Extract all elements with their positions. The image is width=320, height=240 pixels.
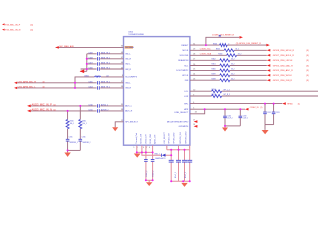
svg-text:46: 46 (121, 62, 123, 64)
svg-text:R311: R311 (82, 121, 86, 123)
svg-text:AUX_R: AUX_R (125, 110, 132, 113)
svg-text:MIKE_TR_2: MIKE_TR_2 (101, 63, 110, 65)
wire IN row C306 left (81, 68, 124, 70)
ground HPR caps (222, 126, 228, 132)
svg-text:GPIO8_I2S0_MCLK_R: GPIO8_I2S0_MCLK_R (273, 50, 295, 52)
svg-text:GPIO5_I2S0_DAC_R: GPIO5_I2S0_DAC_R (273, 64, 293, 67)
node CH2_APM_MIC_L off-page arrow (14, 86, 45, 90)
node PJ3_MIC_P off-page label (2, 23, 33, 26)
svg-text:AUX_L: AUX_L (125, 105, 132, 108)
svg-text:C314: C314 (227, 115, 231, 117)
wire MICBIAS row (56, 46, 124, 48)
node CH2_APM_MIC_R off-page arrow (14, 80, 45, 84)
svg-text:SCLK/SS: SCLK/SS (180, 55, 189, 57)
resistor R304 (218, 54, 241, 57)
capacitor C312 (263, 104, 271, 125)
svg-text:CODEC_DIG_RESET_R: CODEC_DIG_RESET_R (212, 35, 235, 37)
svg-text:C304: C304 (88, 87, 93, 89)
svg-text:R302: R302 (212, 59, 216, 61)
wire GPIO8_I2S_MCLK row (190, 49, 267, 51)
node LINEIN off-page arrow (245, 107, 263, 111)
svg-text:ESD_1: ESD_1 (155, 154, 160, 156)
svg-text:DIN: DIN (185, 80, 189, 82)
svg-text:39: 39 (121, 104, 123, 106)
resistor R302 (212, 59, 235, 62)
svg-text:R301: R301 (212, 64, 216, 66)
wire LO row HP_R_2 (190, 95, 318, 97)
svg-text:SCLK/MFP3: SCLK/MFP3 (125, 77, 137, 79)
resistor R311 (79, 119, 87, 128)
resistor R298 (212, 78, 235, 81)
svg-text:C307: C307 (88, 63, 93, 65)
inductor L12 (95, 75, 109, 77)
svg-text:(3): (3) (306, 55, 309, 57)
svg-text:17: 17 (193, 119, 195, 121)
svg-text:C313: C313 (276, 112, 280, 114)
svg-text:SPKVDD_3V3: SPKVDD_3V3 (180, 132, 182, 144)
svg-text:34: 34 (195, 112, 197, 114)
svg-text:IN3_R: IN3_R (125, 88, 131, 90)
svg-text:26: 26 (193, 64, 195, 66)
svg-text:IN2_R: IN2_R (125, 69, 131, 71)
svg-text:HPR: HPR (184, 109, 189, 111)
svg-text:MIKE_TR_2: MIKE_TR_2 (101, 52, 110, 54)
wire GPIO6_I2S_LRCLK row (190, 59, 267, 61)
capacitor C307 (88, 62, 99, 65)
wire GPIO3_I2S_ADC row (190, 69, 267, 71)
svg-text:AVDD_1V8: AVDD_1V8 (154, 135, 157, 144)
wire HPR row (190, 108, 245, 110)
svg-text:IN1_L: IN1_L (125, 54, 131, 56)
wire LO row HP_L_2 (190, 90, 318, 92)
svg-text:PJ3_MIC_IN_P: PJ3_MIC_IN_P (5, 24, 21, 26)
capacitor C315 (66, 136, 78, 144)
svg-text:9: 9 (193, 94, 194, 96)
svg-text:33_2: 33_2 (231, 69, 235, 71)
capacitor C309 (88, 52, 99, 55)
capacitor C308 (88, 57, 99, 60)
svg-text:AUX3R_2: AUX3R_2 (101, 108, 109, 111)
wire CH2_APM_MIC_L row (17, 87, 124, 89)
svg-text:33_2: 33_2 (231, 64, 235, 66)
node AUD3_MIC_P off-page arrow (27, 102, 56, 107)
resistor R305 (216, 49, 239, 52)
ground SPI_SELECT (112, 127, 118, 131)
capacitor C323 (187, 160, 192, 162)
svg-text:MICDET/HSDET/GPIO: MICDET/HSDET/GPIO (167, 121, 189, 123)
svg-text:L12: L12 (106, 75, 109, 77)
svg-text:IOVDD_1V8: IOVDD_1V8 (141, 134, 143, 144)
svg-text:Thermal_Pad: Thermal_Pad (136, 133, 138, 144)
svg-text:R298: R298 (212, 78, 216, 80)
node GPIO4_DIG_RESET_R off-page (236, 43, 270, 46)
svg-text:PJ3_MIC_IN_N: PJ3_MIC_IN_N (5, 30, 21, 32)
node GPIO3_I2S_ADC off-page arrow (267, 69, 309, 72)
svg-text:MIKE_TR_2: MIKE_TR_2 (101, 81, 110, 83)
svg-text:(3): (3) (306, 50, 309, 52)
ground bypass caps (181, 183, 187, 187)
wire bypass branches (171, 150, 190, 182)
op-amp U300 codec IC body (124, 37, 190, 146)
capacitor C320 (169, 160, 174, 162)
svg-text:HPVDD_1V8: HPVDD_1V8 (169, 133, 171, 144)
wire R310 branch vertical (67, 111, 69, 150)
wire C318 branch (152, 145, 154, 180)
svg-text:GPIO2_I2S0_WCLK: GPIO2_I2S0_WCLK (273, 75, 293, 77)
svg-text:HP_R_2: HP_R_2 (224, 94, 230, 96)
svg-text:(3): (3) (306, 60, 309, 62)
node AUD3_MIC_N off-page arrow (27, 107, 56, 112)
svg-text:LINE_SELECT: LINE_SELECT (174, 112, 189, 114)
capacitor C311 (88, 109, 99, 112)
svg-text:IN1_R: IN1_R (125, 59, 131, 61)
svg-text:0: 0 (228, 43, 229, 45)
svg-text:CH2_APM_MIC_R: CH2_APM_MIC_R (18, 80, 37, 83)
svg-text:C316: C316 (82, 136, 86, 138)
svg-text:CODEC_SCL: CODEC_SCL (200, 49, 211, 51)
svg-text:SPI_SELECT: SPI_SELECT (125, 122, 138, 124)
node GPIO2_I2S_WCLK off-page arrow (267, 74, 309, 77)
svg-text:0.1uF_2: 0.1uF_2 (146, 171, 148, 177)
svg-text:MIKE_TR_2: MIKE_TR_2 (101, 57, 110, 59)
svg-text:LOR: LOR (184, 96, 189, 98)
ground mic bias network (64, 150, 70, 157)
svg-text:C315: C315 (69, 136, 73, 138)
testpoint TP mark (219, 35, 221, 37)
svg-text:R296: R296 (212, 89, 216, 91)
svg-text:33_2: 33_2 (231, 78, 235, 80)
svg-text:8: 8 (122, 75, 123, 77)
capacitor C316 (79, 136, 91, 144)
wire RESET row (190, 44, 267, 46)
svg-text:MIKE_TR_2: MIKE_TR_2 (101, 87, 110, 89)
svg-text:18: 18 (193, 124, 195, 126)
resistor R297 (212, 94, 222, 98)
svg-text:10: 10 (193, 90, 195, 92)
svg-text:C312: C312 (267, 112, 271, 114)
wire AUD3_MIC_P row (31, 105, 124, 107)
svg-text:33_2: 33_2 (231, 74, 235, 76)
svg-text:HP_L_2: HP_L_2 (224, 89, 230, 91)
node MICDET input arrow (194, 120, 198, 123)
svg-text:WCLK: WCLK (182, 75, 189, 77)
node junction dots (67, 44, 275, 182)
svg-text:CH2_APM_MIC_L: CH2_APM_MIC_L (18, 86, 37, 89)
wire IN row C307 left (87, 63, 124, 65)
svg-text:R300: R300 (212, 69, 216, 71)
capacitor C310 (88, 104, 99, 107)
svg-text:AUD3_MIC_IN_P: AUD3_MIC_IN_P (32, 102, 53, 106)
svg-text:CODEC_IN: CODEC_IN (250, 107, 260, 109)
svg-text:HP300: HP300 (287, 103, 293, 105)
capacitor C318 (151, 160, 155, 177)
svg-text:36: 36 (121, 46, 123, 48)
svg-text:R306: R306 (213, 43, 217, 45)
resistor R299 (212, 74, 235, 77)
svg-text:GPIO7_I2S0_BCLK_R: GPIO7_I2S0_BCLK_R (273, 55, 295, 57)
svg-text:5: 5 (133, 147, 134, 149)
svg-text:(3): (3) (306, 80, 309, 82)
svg-text:RESET: RESET (181, 45, 189, 47)
node GPIO1_I2S_DIN off-page arrow (267, 79, 309, 82)
svg-text:C311: C311 (88, 109, 92, 111)
wire HPR cap join (225, 125, 240, 127)
wire HPL cap join (265, 124, 274, 126)
resistor R306 (213, 43, 229, 46)
svg-text:IN3_L: IN3_L (125, 83, 131, 85)
svg-text:MIC_BIAS_AUD: MIC_BIAS_AUD (59, 45, 74, 48)
node CODEC_DIG_RESET_R label (212, 35, 243, 39)
svg-text:31: 31 (193, 43, 195, 45)
node GPIO5_I2S_DAC off-page arrow (267, 64, 309, 67)
wire CODEC_DIG_RESET_R branch (206, 37, 239, 45)
svg-text:MICBIAS: MICBIAS (125, 46, 134, 49)
resistor R310 (66, 119, 74, 128)
svg-text:8: 8 (149, 147, 150, 149)
wire AUD3_MIC_N row (31, 110, 124, 112)
wire bypass join (171, 180, 190, 182)
svg-text:27: 27 (193, 59, 195, 61)
svg-text:R305: R305 (216, 49, 220, 51)
svg-text:R299: R299 (212, 74, 216, 76)
wire GPIO5_I2S_DAC row (190, 65, 267, 67)
resistor R296 (212, 89, 222, 93)
svg-text:DVDD_1V8: DVDD_1V8 (145, 135, 147, 144)
svg-text:10k_1: 10k_1 (82, 123, 86, 125)
svg-text:45: 45 (121, 67, 123, 69)
svg-text:R304: R304 (218, 54, 222, 56)
pin label MICBIAS highlight (125, 46, 133, 49)
svg-text:47: 47 (121, 57, 123, 59)
capacitor C319 (239, 109, 249, 126)
svg-text:38: 38 (121, 109, 123, 111)
svg-text:HPVSS_GND: HPVSS_GND (173, 132, 175, 144)
svg-text:GPIO6_I2S0_LRCLK: GPIO6_I2S0_LRCLK (273, 60, 293, 62)
svg-text:0.1uF_2: 0.1uF_2 (153, 171, 155, 177)
svg-text:C306: C306 (88, 68, 93, 70)
wire IN row C309 left (87, 53, 124, 55)
wire GPIO7_I2S_BCLK row (190, 54, 267, 56)
capacitor value labels rotated (175, 172, 187, 178)
node GPIO8_I2S_MCLK off-page arrow (267, 49, 309, 52)
svg-text:(4): (4) (30, 24, 33, 26)
wire IN row C308 left (87, 58, 124, 60)
node PJ3_MIC_N off-page label (2, 29, 33, 32)
svg-text:(4): (4) (30, 30, 33, 32)
ground DVSS (134, 154, 141, 158)
svg-text:C309: C309 (88, 52, 93, 54)
svg-text:23: 23 (193, 79, 195, 81)
svg-text:GPI/MFP4: GPI/MFP4 (179, 126, 190, 128)
svg-text:SPKVSS_GND: SPKVSS_GND (186, 131, 188, 144)
svg-text:AUD3_MIC_IN_N: AUD3_MIC_IN_N (32, 107, 53, 111)
svg-text:DM01: DM01 (84, 75, 89, 77)
svg-text:38: 38 (121, 86, 123, 88)
wire DVSS drops (137, 145, 153, 152)
svg-text:R297: R297 (212, 94, 216, 96)
svg-text:(3): (3) (306, 65, 309, 67)
svg-text:(3) GPIO4_DIG_RESET_R: (3) GPIO4_DIG_RESET_R (236, 43, 262, 45)
capacitor C305 (88, 81, 99, 84)
svg-text:C310: C310 (88, 104, 93, 106)
svg-text:7: 7 (146, 147, 147, 149)
wire CH2_APM_MIC_R row (17, 82, 124, 84)
node GPIO6_I2S_LRCLK off-page arrow (267, 59, 309, 62)
svg-text:(1): (1) (53, 109, 56, 111)
svg-text:C305: C305 (88, 81, 93, 83)
svg-text:37: 37 (121, 81, 123, 83)
wire input bus vertical (80, 54, 87, 72)
ground HPL caps (262, 125, 269, 135)
capacitor C314 (223, 109, 233, 126)
node GPIO7_I2S_BCLK off-page arrow (267, 54, 309, 57)
svg-text:MWF1B5_2: MWF1B5_2 (83, 142, 91, 144)
capacitor C306 (88, 67, 99, 70)
svg-text:33_2: 33_2 (235, 49, 239, 51)
svg-text:0.1uF_2: 0.1uF_2 (175, 172, 177, 178)
svg-text:(1): (1) (53, 104, 56, 106)
svg-text:SDA/MOSI: SDA/MOSI (178, 59, 189, 62)
svg-text:10k_1: 10k_1 (70, 123, 74, 125)
wire SPI_SELECT row (115, 122, 123, 127)
ground C317 C318 (146, 180, 152, 186)
capacitor C317 (144, 160, 148, 177)
svg-text:C319: C319 (243, 115, 247, 117)
capacitor C313 (272, 104, 280, 125)
svg-text:25: 25 (193, 69, 195, 71)
wire AVDD drops (167, 145, 190, 149)
wire R311 branch vertical (79, 106, 81, 150)
svg-text:C308: C308 (88, 57, 93, 59)
node MIC_BIAS_AUD off-page arrow (55, 45, 74, 49)
capacitor C304 (88, 86, 99, 89)
svg-text:33_2: 33_2 (231, 59, 235, 61)
svg-text:(3): (3) (306, 75, 309, 77)
resistor R301 (212, 64, 235, 67)
svg-text:48: 48 (121, 52, 123, 54)
wire branch join (68, 149, 81, 151)
node GPI input arrow (194, 125, 198, 128)
svg-text:GPIO1_I2S0_DIN_R: GPIO1_I2S0_DIN_R (273, 80, 293, 82)
svg-text:GPIO3_I2S0_ADC_R: GPIO3_I2S0_ADC_R (273, 69, 293, 72)
svg-text:MCLK: MCLK (183, 50, 189, 52)
svg-text:5: 5 (193, 108, 194, 110)
svg-text:29: 29 (193, 49, 195, 51)
wire ESD bus (142, 152, 171, 155)
svg-text:MIKE_TR_2: MIKE_TR_2 (101, 68, 110, 70)
capacitor C322 (182, 160, 187, 162)
wire LINE_SELECT row (190, 109, 205, 114)
svg-text:11: 11 (121, 120, 123, 122)
wire DM01 row (75, 77, 124, 88)
diode D300 TVS (155, 154, 167, 161)
svg-text:0.1uF_2: 0.1uF_2 (185, 172, 187, 178)
wire GPIO1_I2S_DIN row (190, 79, 267, 81)
svg-text:MWF1B5_2: MWF1B5_2 (70, 142, 78, 144)
wire C317 C318 join (146, 179, 153, 181)
svg-text:28: 28 (193, 54, 195, 56)
capacitor C321 (176, 160, 181, 162)
svg-text:6: 6 (193, 102, 194, 104)
svg-text:LDO_SELECT: LDO_SELECT (164, 131, 166, 144)
svg-text:0.1uF_2: 0.1uF_2 (227, 117, 232, 119)
wire GPIO2_I2S_WCLK row (190, 74, 267, 76)
resistor R300 (212, 69, 235, 72)
svg-text:R310: R310 (70, 121, 74, 123)
svg-text:24: 24 (193, 74, 195, 76)
svg-text:(3): (3) (306, 70, 309, 72)
node HP300 off-page arrow (282, 102, 300, 105)
svg-text:33_2: 33_2 (238, 54, 242, 56)
svg-text:DOUT/MFP2: DOUT/MFP2 (176, 70, 189, 72)
svg-text:IN2_L: IN2_L (125, 64, 131, 66)
svg-text:AUX3L_2: AUX3L_2 (101, 103, 108, 106)
svg-text:6: 6 (143, 147, 144, 149)
svg-text:CODEC_SDA: CODEC_SDA (200, 53, 212, 56)
node input bus arrow (80, 70, 85, 74)
wire C317 branch (145, 145, 147, 180)
svg-text:(1): (1) (298, 103, 301, 105)
svg-text:0.1uF_2: 0.1uF_2 (243, 117, 248, 119)
svg-text:DVSS_GND: DVSS_GND (150, 133, 152, 144)
wire HPL row (190, 103, 282, 105)
